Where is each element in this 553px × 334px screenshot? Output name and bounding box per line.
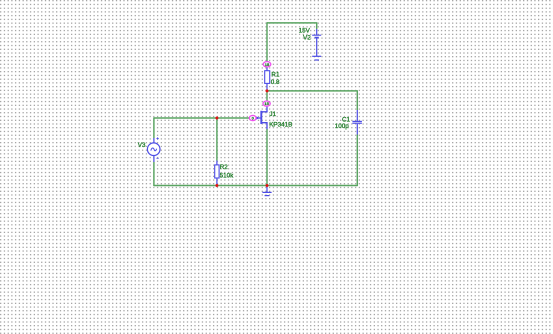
svg-text:V3: V3	[138, 142, 146, 149]
node junction R2 / ground rail	[215, 184, 218, 187]
wire source column down to ground rail	[266, 129, 268, 186]
wire source lead blue	[261, 123, 267, 130]
wire bottom ground rail	[154, 185, 357, 187]
transistor J1 gate lead	[256, 117, 261, 119]
svg-text:V2: V2	[303, 34, 311, 41]
wire C1 top lead blue	[356, 110, 358, 121]
svg-text:KP341B: KP341B	[269, 121, 292, 128]
wire drain lead blue	[261, 102, 267, 112]
wire node down to ellipse2	[266, 91, 268, 102]
wire V3 bottom lead blue	[153, 156, 155, 163]
svg-text:J1: J1	[269, 111, 276, 118]
wire V3 top lead blue	[153, 138, 155, 143]
wire R2 column from gate net down	[216, 118, 218, 161]
voltage pin ellipse 15 lower	[263, 101, 270, 106]
battery V2	[312, 29, 321, 56]
transistor J1 gate arrow	[256, 116, 260, 119]
resistor R2	[215, 165, 219, 178]
ground under battery V2	[312, 56, 321, 60]
wire lead R1 bottom to node (blue)	[266, 83, 268, 91]
ground under J1 source at rail	[262, 186, 271, 196]
wire battery column from top rail	[316, 22, 318, 29]
node junction R1 bottom / C1 net	[266, 89, 269, 92]
wire top rail from R1 column to battery V2	[267, 22, 317, 24]
wire R2 top lead blue	[216, 161, 218, 166]
node junction gate net / R2	[215, 117, 218, 120]
svg-text:100p: 100p	[335, 123, 350, 130]
wire V3 column vertical top	[153, 117, 155, 138]
voltage pin ellipse 0 gate	[249, 115, 256, 120]
svg-text:15V: 15V	[299, 27, 311, 34]
resistor R1	[265, 71, 270, 84]
wire R2 bottom lead blue	[216, 178, 218, 186]
svg-text:R1: R1	[271, 71, 280, 78]
wire V3 column vertical bottom	[153, 162, 155, 186]
wire gate net from V3 column to ellipse0	[154, 117, 250, 119]
svg-text:0.8: 0.8	[271, 79, 280, 86]
svg-text:510k: 510k	[220, 172, 235, 179]
svg-text:R2: R2	[220, 164, 229, 171]
transistor J1 channel bar	[260, 111, 262, 124]
wire C1 column from mid rail down	[356, 90, 358, 110]
wire C1 column down to ground rail	[356, 135, 358, 187]
capacitor C1	[352, 121, 362, 123]
node junction source / ground rail	[266, 184, 269, 187]
voltage pin ellipse 15 upper	[263, 62, 271, 67]
wire C1 bottom lead blue	[356, 124, 358, 135]
voltage source V3	[147, 137, 160, 158]
svg-text:15: 15	[264, 101, 269, 106]
svg-text:15: 15	[265, 62, 270, 67]
wire mid horizontal from node to C1 column	[267, 90, 357, 92]
wire lead ellipse1 to R1 top (blue)	[266, 64, 268, 71]
wire vertical drop from top rail to R1	[266, 22, 268, 64]
